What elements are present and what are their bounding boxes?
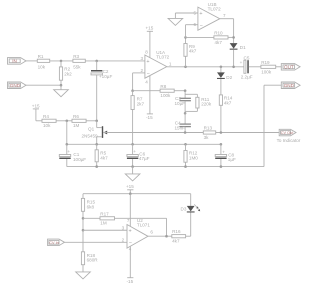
svg-text:R6: R6 (73, 114, 79, 119)
svg-text:4: 4 (145, 79, 148, 84)
node R7 bottom rail (131, 143, 134, 146)
op-amp U1A (141, 50, 172, 85)
svg-text:C5: C5 (244, 55, 250, 60)
wire R17 to feedback column (115, 218, 167, 236)
svg-text:7: 7 (223, 13, 226, 18)
svg-text:2k7: 2k7 (137, 101, 145, 106)
svg-text:−: − (147, 71, 150, 77)
svg-text:−: − (200, 23, 203, 29)
svg-text:R8: R8 (160, 84, 166, 89)
node input junction (60, 60, 63, 63)
resistor R8 (160, 84, 174, 98)
svg-text:100k: 100k (160, 93, 171, 98)
diode D2 (217, 67, 233, 95)
svg-text:3: 3 (141, 56, 144, 61)
svg-text:+: + (199, 11, 202, 17)
connector IN (8, 58, 27, 65)
svg-text:R4: R4 (43, 114, 49, 119)
svg-text:TL071: TL071 (137, 223, 150, 228)
wire to U1B inverting input (186, 25, 198, 38)
svg-text:1M0: 1M0 (189, 155, 198, 160)
node R10/D1 (232, 36, 235, 39)
node D2 top (220, 66, 223, 69)
wire U1A output rail (167, 66, 244, 68)
wire feedback node to R8 (133, 90, 161, 92)
lower supply rail (83, 194, 191, 199)
node U2 output (165, 235, 168, 238)
svg-text:D1: D1 (240, 45, 246, 50)
resistor R16 (172, 229, 186, 244)
node bias rail left (66, 143, 69, 146)
svg-text:220k: 220k (201, 102, 212, 107)
svg-text:15nF: 15nF (175, 125, 186, 130)
wire GND to R2 bottom (26, 84, 61, 86)
resistor R12 (184, 144, 198, 166)
capacitor C2 (91, 61, 112, 121)
svg-text:2.2µF: 2.2µF (241, 74, 253, 79)
wire rail to LED (190, 194, 192, 206)
svg-text:47µF: 47µF (139, 156, 150, 161)
svg-text:2: 2 (122, 237, 125, 242)
connector CV In (48, 239, 65, 246)
svg-text:+: + (240, 60, 243, 65)
svg-text:100µF: 100µF (73, 157, 86, 162)
node R9 bottom (184, 66, 187, 69)
svg-text:1M: 1M (100, 221, 107, 226)
node R14 bottom (220, 131, 223, 134)
svg-text:+10µF: +10µF (99, 74, 112, 79)
node Q1 source (95, 143, 98, 146)
capacitor C3 (175, 91, 191, 114)
svg-text:10k: 10k (38, 65, 46, 70)
supply -15 (U2 pin 4) (127, 246, 134, 283)
wire R15 column down (82, 230, 84, 252)
node Q1 drain (95, 120, 98, 123)
svg-text:+: + (67, 149, 70, 154)
svg-text:2k2: 2k2 (64, 71, 72, 76)
svg-text:Q1: Q1 (88, 127, 95, 132)
connector GND (input) (8, 82, 27, 89)
svg-text:R13: R13 (204, 125, 213, 130)
svg-text:6: 6 (194, 22, 197, 27)
wire R3 to U1A + input (85, 60, 145, 62)
svg-text:+: + (146, 59, 149, 65)
resistor R14 (219, 95, 232, 133)
wire U1B output down (220, 19, 234, 43)
resistor R17 (100, 211, 115, 225)
node R12 top (184, 143, 187, 146)
svg-text:To Indicator: To Indicator (277, 138, 301, 143)
wire R16 to LED column (186, 213, 191, 237)
resistor R11 (185, 94, 212, 111)
resistor R9 (184, 37, 197, 66)
wire U1A inverting input (133, 73, 145, 91)
svg-text:R1: R1 (38, 54, 44, 59)
svg-text:4k7: 4k7 (189, 49, 197, 54)
svg-text:1: 1 (169, 61, 172, 66)
svg-text:CV In: CV In (49, 241, 59, 245)
svg-text:R19: R19 (261, 60, 270, 65)
node C2 top (95, 60, 98, 63)
svg-text:10µF: 10µF (175, 101, 186, 106)
capacitor C5 (240, 55, 261, 79)
resistor R13 (203, 125, 215, 140)
node C6 bottom (131, 165, 134, 168)
svg-text:+: + (222, 149, 225, 154)
node +15 rail (129, 192, 132, 195)
resistor R4 (32, 103, 72, 128)
wire R19 to OUT (276, 66, 282, 68)
wire U2 pin7 riser (129, 194, 131, 227)
resistor R1 (37, 54, 49, 70)
svg-text:4k7: 4k7 (224, 100, 232, 105)
wire U2 output (148, 235, 172, 237)
node C8 bottom (220, 165, 223, 168)
svg-text:-15: -15 (146, 115, 153, 120)
svg-text:2: 2 (141, 68, 144, 73)
wire R8 to C3/R11 (174, 90, 185, 92)
svg-text:100k: 100k (261, 69, 272, 74)
bias rail (67, 143, 221, 145)
op-amp U2 (122, 218, 154, 252)
supply +15 (lower) (126, 184, 134, 194)
resistor R2 (59, 61, 72, 85)
svg-text:680R: 680R (87, 258, 99, 263)
resistor R5 (95, 144, 108, 166)
capacitor C6 (127, 144, 150, 166)
svg-text:1µF: 1µF (228, 157, 236, 162)
svg-text:55k: 55k (73, 65, 81, 70)
svg-text:R16: R16 (172, 229, 181, 234)
ground rail (67, 166, 264, 168)
node feedback (131, 89, 134, 92)
svg-text:GND: GND (10, 83, 21, 88)
LED D3 (181, 204, 201, 212)
connector GND (output) (281, 82, 300, 89)
connector OUT (281, 64, 300, 71)
ground (R18) (76, 272, 91, 279)
node D1 bottom (232, 66, 235, 69)
capacitor C1 (59, 144, 86, 166)
svg-text:IN: IN (12, 59, 17, 64)
resistor R7 (131, 91, 144, 145)
svg-text:+15: +15 (146, 26, 154, 31)
svg-text:GND: GND (284, 83, 295, 88)
node R15/R17 (82, 217, 85, 220)
wire to U2 + input (83, 229, 127, 231)
resistor R3 (73, 54, 85, 70)
svg-text:D3: D3 (181, 206, 187, 211)
svg-text:+15: +15 (32, 103, 40, 108)
wire IN to R1 (26, 60, 37, 62)
ground (main) (125, 167, 140, 181)
svg-text:3k: 3k (204, 135, 210, 140)
svg-text:+: + (133, 149, 136, 154)
wire R10 to D1 column (228, 36, 234, 38)
wire R13 to CV Out (216, 132, 280, 134)
svg-text:1M: 1M (73, 123, 80, 128)
ground (input) (54, 85, 69, 97)
svg-text:TL072: TL072 (156, 55, 169, 60)
node R12 bottom (184, 165, 187, 168)
svg-text:4k7: 4k7 (172, 239, 180, 244)
ground (U1B +) (168, 18, 183, 25)
svg-text:6k8: 6k8 (87, 204, 95, 209)
wire to R17 (83, 217, 100, 219)
wire R4/R6 node down to bias rail (66, 121, 68, 145)
svg-text:7: 7 (127, 218, 130, 223)
svg-text:CV Out: CV Out (281, 131, 294, 135)
node C4 bottom (184, 131, 187, 134)
wire R10 feedback (186, 36, 214, 38)
svg-text:10k: 10k (43, 123, 51, 128)
wire U1B + input to ground (175, 13, 198, 18)
svg-text:3: 3 (122, 225, 125, 230)
supply -15 (U1A pin 4) (146, 76, 153, 120)
resistor R6 (72, 114, 97, 128)
node R4/R6 (66, 120, 69, 123)
svg-text:4k7: 4k7 (215, 40, 223, 45)
svg-text:6: 6 (150, 229, 153, 234)
node C8 top (220, 143, 223, 146)
svg-text:D2: D2 (226, 75, 232, 80)
op-amp U1B (194, 2, 227, 30)
node U1B inverting (184, 36, 187, 39)
diode D1 (230, 43, 246, 67)
svg-text:R17: R17 (100, 211, 109, 216)
svg-text:R10: R10 (214, 30, 223, 35)
svg-text:-15: -15 (127, 279, 134, 284)
svg-text:4k7: 4k7 (100, 155, 108, 160)
resistor R10 (214, 30, 228, 45)
capacitor C4 (175, 113, 191, 132)
node C3 bottom (184, 112, 187, 115)
wire Q1 gate rail (103, 132, 203, 134)
transistor Q1 2N5459 (82, 121, 108, 145)
svg-text:2N5459: 2N5459 (82, 134, 99, 139)
resistor R18 (81, 252, 98, 272)
node R5 bottom (95, 165, 98, 168)
svg-text:+15: +15 (126, 184, 134, 189)
wire R1 to R3 (50, 60, 73, 62)
wire GND to ground rail riser (264, 85, 281, 166)
node U2 + input (82, 229, 85, 232)
supply +15 (U1A pin 8) (146, 26, 154, 58)
resistor R19 (261, 60, 276, 75)
svg-text:8: 8 (145, 50, 148, 55)
resistor R15 (81, 198, 95, 230)
connector CV Out (277, 129, 301, 143)
svg-text:TL072: TL072 (208, 7, 221, 12)
svg-text:R3: R3 (73, 54, 79, 59)
wire CV In to U2 - input (65, 241, 128, 243)
svg-text:OUT: OUT (284, 65, 294, 70)
node C3 top (184, 89, 187, 92)
capacitor C8 (215, 144, 236, 166)
svg-text:+: + (129, 228, 132, 234)
